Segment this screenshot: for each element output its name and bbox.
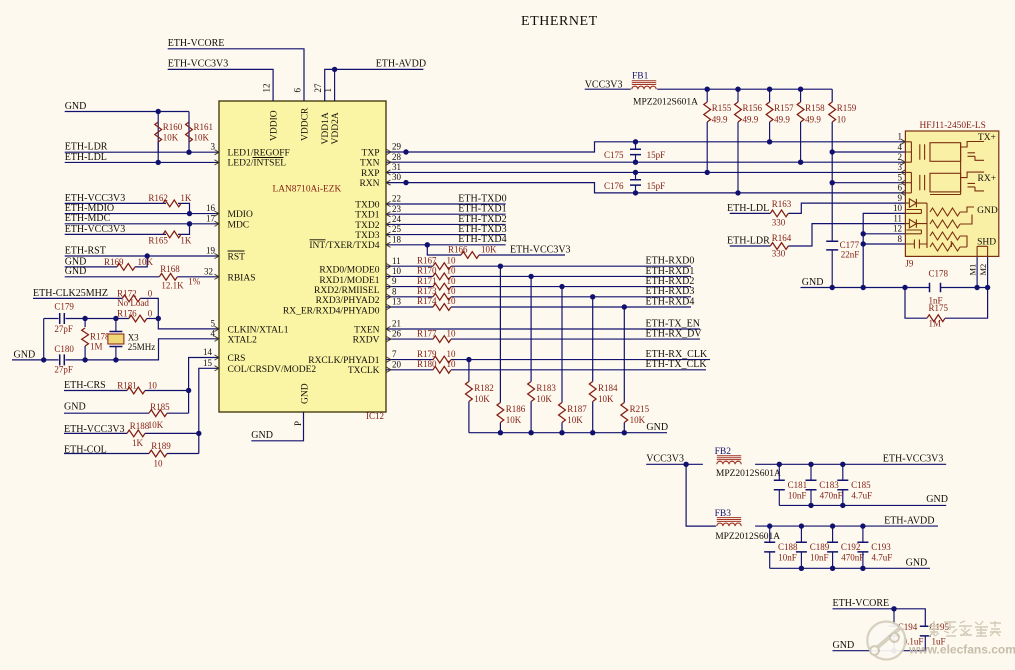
J9 LED1 diode	[905, 199, 927, 210]
svg-text:VDDIO: VDDIO	[270, 110, 280, 141]
svg-text:22nF: 22nF	[841, 250, 860, 260]
junction C175 bottom	[633, 160, 638, 165]
wire ETH-RXD0 from chip through R167	[386, 265, 433, 267]
wire chip GND pin to GND	[251, 412, 303, 441]
svg-text:1%: 1%	[188, 276, 201, 286]
svg-text:XTAL2: XTAL2	[228, 335, 258, 345]
svg-text:10K: 10K	[536, 394, 552, 404]
svg-text:No Load: No Load	[117, 298, 149, 308]
svg-text:RXD2/RMIISEL: RXD2/RMIISEL	[314, 286, 380, 296]
svg-text:ETH-VCC3V3: ETH-VCC3V3	[883, 454, 944, 465]
svg-text:MDC: MDC	[228, 220, 250, 230]
svg-text:ETH-RST: ETH-RST	[65, 245, 106, 256]
wire ETH-LDR to pin 3	[65, 151, 219, 153]
svg-text:1K: 1K	[132, 438, 144, 448]
junction C194 top	[891, 606, 896, 611]
svg-text:ETH-VCORE: ETH-VCORE	[168, 38, 225, 49]
wire ETH-RXD1 from chip through R170	[386, 275, 433, 277]
svg-text:C176: C176	[604, 181, 624, 191]
svg-text:12.1K: 12.1K	[161, 281, 184, 291]
resistor R186 10K	[497, 403, 504, 423]
junction ETH-RXD2 pulldown column	[559, 284, 564, 289]
wire R183 column	[530, 276, 532, 381]
junction C183 bottom	[808, 503, 813, 508]
svg-text:27pF: 27pF	[54, 364, 73, 374]
wire ETH-CRS through R181 to pin 14 CRS	[64, 390, 127, 392]
svg-text:12: 12	[893, 224, 902, 234]
resistor R215 10K	[621, 403, 628, 423]
svg-text:C175: C175	[604, 150, 624, 160]
J9 LED2 return pin 12	[905, 230, 921, 234]
wire RJ45 pin 10 to ground column	[863, 213, 905, 287]
svg-text:CLKIN/XTAL1: CLKIN/XTAL1	[228, 325, 289, 335]
svg-text:GND: GND	[646, 422, 668, 433]
J9 RX+ output steps	[961, 172, 985, 191]
svg-text:25: 25	[392, 224, 402, 234]
svg-text:R184: R184	[598, 383, 618, 393]
junction pin 12 ground	[861, 231, 866, 236]
svg-text:IC12: IC12	[366, 411, 384, 421]
wire M2 to shield rail	[987, 256, 989, 287]
wire ETH-COL through R189	[64, 453, 149, 455]
wire ETH-LDR through R164 to RJ45 pin 11	[730, 245, 771, 247]
svg-text:TXD1: TXD1	[355, 211, 380, 221]
junction GND/C179 branch	[41, 357, 46, 362]
svg-text:TXCLK: TXCLK	[348, 366, 380, 376]
junction C176 top	[633, 170, 638, 175]
ferrite bead FB2 MPZ2012S601A	[717, 461, 741, 464]
svg-text:R180: R180	[417, 359, 437, 369]
svg-text:GND: GND	[926, 494, 948, 505]
wire COL node to pin 15	[199, 368, 219, 453]
wire R182 column	[468, 360, 470, 382]
junction at pin 29	[403, 149, 408, 154]
svg-text:HFJ11-2450E-LS: HFJ11-2450E-LS	[920, 121, 986, 131]
junction R158 bottom	[798, 160, 803, 165]
svg-text:1M: 1M	[90, 342, 103, 352]
svg-text:14: 14	[203, 347, 213, 357]
svg-text:J9: J9	[905, 258, 914, 268]
resistor R183 10K	[528, 382, 535, 402]
wire GND through R168 to pin 32 RBIAS	[65, 276, 160, 278]
wire VCC3V3 through FB1 to termination rail	[585, 88, 631, 90]
svg-text:ETH-VCC3V3: ETH-VCC3V3	[168, 59, 229, 70]
svg-text:ETH-LDL: ETH-LDL	[727, 203, 769, 214]
svg-text:C188: C188	[778, 542, 798, 552]
ic U IC12 LAN8710Ai-EZK body	[219, 101, 386, 412]
svg-text:TX+: TX+	[978, 133, 996, 143]
junction C188 top	[767, 523, 772, 528]
svg-text:7: 7	[392, 349, 397, 359]
svg-text:R183: R183	[536, 383, 556, 393]
resistor R181 10	[127, 387, 145, 394]
svg-text:9: 9	[898, 193, 903, 203]
svg-text:27pF: 27pF	[54, 324, 73, 334]
svg-text:MPZ2012S601A: MPZ2012S601A	[715, 532, 780, 542]
resistor R184 10K	[589, 382, 596, 402]
svg-text:GND: GND	[251, 430, 273, 441]
svg-text:10K: 10K	[567, 415, 583, 425]
wire ETH-TXD0 from pin 22	[386, 203, 506, 205]
svg-text:R189: R189	[151, 441, 171, 451]
svg-text:10: 10	[447, 266, 457, 276]
svg-text:GND: GND	[65, 266, 87, 277]
svg-text:R155: R155	[712, 103, 732, 113]
capacitor C193 4.7uF	[862, 526, 864, 542]
wire ETH-RX_CLK from pin 7 through R179	[386, 359, 433, 361]
resistor R171 10	[433, 283, 451, 290]
wire ETH-VCC3V3 through R162 to MDIO	[65, 202, 166, 204]
J9 TX+ output steps	[961, 142, 985, 161]
junction R157 bottom	[767, 139, 772, 144]
junction R176 output on CLKIN branch	[156, 316, 161, 321]
wire ETH-VCC3V3 through R165 to MDC	[65, 233, 166, 235]
svg-text:R163: R163	[772, 199, 792, 209]
wire ETH-VCC3V3 rail	[755, 463, 946, 465]
junction C185 top	[840, 462, 845, 467]
junction C194 bottom	[891, 648, 896, 653]
svg-text:4.7uF: 4.7uF	[851, 490, 872, 500]
svg-text:23: 23	[392, 204, 402, 214]
resistor R187 10K	[559, 403, 566, 423]
svg-text:VCC3V3: VCC3V3	[585, 79, 623, 90]
resistor R160 10K vertical	[157, 112, 159, 153]
wire ETH-TXD2 from pin 24	[386, 223, 506, 225]
svg-text:26: 26	[392, 329, 402, 339]
junction X3 bottom	[113, 357, 118, 362]
svg-text:5: 5	[211, 319, 216, 329]
wire XTAL1 top rail with C179	[44, 318, 59, 320]
wire ETH-RXD2 from chip through R171	[386, 286, 433, 288]
svg-text:RX+: RX+	[978, 174, 997, 184]
resistor R157 49.9 vertical	[769, 89, 771, 102]
junction R156 bottom	[735, 190, 740, 195]
junction COL node	[196, 431, 201, 436]
svg-text:10nF: 10nF	[810, 552, 829, 562]
capacitor C175 15pF	[635, 142, 637, 149]
wire ETH-VCC3V3 to pin 12 VDDIO	[168, 69, 273, 101]
svg-text:R179: R179	[417, 349, 437, 359]
svg-text:TXP: TXP	[362, 148, 380, 158]
wire ETH-TX_CLK from pin 20 through R180	[386, 369, 433, 371]
J9 pin 8 coupling capacitor	[905, 240, 927, 249]
wire pin 1 VDD2A stub	[334, 69, 336, 101]
resistor R155 49.9 vertical	[706, 89, 708, 102]
svg-text:RBIAS: RBIAS	[228, 273, 256, 283]
svg-text:1K: 1K	[180, 235, 192, 245]
svg-text:VDD1A: VDD1A	[321, 112, 331, 144]
svg-text:RXD1/MODE1: RXD1/MODE1	[319, 276, 379, 286]
svg-text:1K: 1K	[180, 193, 192, 203]
watermark chinese characters	[928, 621, 1001, 636]
svg-text:GND: GND	[301, 383, 311, 404]
wire ETH-RXD4 from chip through R174	[386, 306, 433, 308]
junction C185 bottom	[840, 503, 845, 508]
junction at pin 30	[403, 180, 408, 185]
svg-text:R176: R176	[117, 309, 137, 319]
junction C189 top	[799, 523, 804, 528]
capacitor C183 470nF	[810, 464, 812, 480]
capacitor C179 27pF	[60, 313, 65, 324]
svg-text:ETH-RXD4: ETH-RXD4	[646, 296, 695, 307]
junction C193 bottom	[860, 566, 865, 571]
svg-text:R156: R156	[743, 103, 763, 113]
svg-text:5: 5	[898, 173, 903, 183]
svg-text:12: 12	[262, 84, 272, 93]
svg-text:13: 13	[392, 297, 402, 307]
svg-text:VDDCR: VDDCR	[301, 107, 311, 141]
svg-text:TXN: TXN	[360, 159, 380, 169]
svg-text:ETH-AVDD: ETH-AVDD	[376, 59, 426, 70]
svg-text:C181: C181	[788, 480, 808, 490]
svg-text:470nF: 470nF	[820, 490, 843, 500]
resistor R182 10K	[466, 382, 473, 402]
svg-text:ETH-VCORE: ETH-VCORE	[833, 598, 890, 609]
svg-text:FB1: FB1	[632, 71, 649, 81]
junction C175 top	[633, 139, 638, 144]
J9 RX transformer core	[920, 175, 925, 190]
svg-text:R215: R215	[630, 404, 650, 414]
resistor R162 1K	[163, 200, 181, 207]
svg-text:25MHz: 25MHz	[128, 342, 156, 352]
J9 RX transformer secondary	[930, 173, 961, 192]
resistor R165 1K	[163, 231, 181, 238]
svg-text:RXD0/MODE0: RXD0/MODE0	[319, 266, 379, 276]
svg-text:8: 8	[898, 234, 903, 244]
svg-text:R164: R164	[772, 233, 792, 243]
svg-text:TXEN: TXEN	[354, 325, 379, 335]
svg-text:RX_ER/RXD4/PHYAD0: RX_ER/RXD4/PHYAD0	[283, 306, 380, 316]
svg-text:10: 10	[148, 381, 158, 391]
svg-text:R187: R187	[567, 404, 587, 414]
wire ETH-MDC to pin 17	[65, 223, 219, 225]
junction R215 at GND rail	[622, 430, 627, 435]
wire ETH-RST to pin 19	[65, 255, 219, 257]
svg-text:4: 4	[211, 328, 216, 338]
junction GND/R160	[156, 109, 161, 114]
svg-text:R181: R181	[117, 381, 137, 391]
resistor R166 10K	[461, 252, 479, 259]
resistor R161 10K vertical	[188, 112, 190, 153]
resistor R189 10	[149, 450, 167, 457]
connector J9 HFJ11-2450E-LS body	[905, 131, 998, 256]
wire R184 column	[592, 297, 594, 382]
svg-text:10: 10	[447, 255, 457, 265]
junction R162/MDIO	[187, 211, 192, 216]
wire RXN pin 30 to RJ45 pin 6	[386, 183, 905, 193]
svg-text:ETH-LDL: ETH-LDL	[65, 152, 107, 163]
svg-text:ETH-CLK25MHZ: ETH-CLK25MHZ	[33, 288, 108, 299]
svg-text:C193: C193	[871, 542, 891, 552]
junction C193 top	[860, 523, 865, 528]
wire M1 to shield rail	[976, 256, 978, 287]
wire R166 pull to ETH-VCC3V3	[427, 245, 461, 255]
wire VCC3V3 branch to FB3	[686, 464, 716, 526]
junction R186 at GND rail	[498, 430, 503, 435]
svg-text:10: 10	[447, 286, 457, 296]
svg-text:10: 10	[392, 266, 402, 276]
svg-text:CRS: CRS	[228, 354, 246, 364]
svg-text:ETH-VCC3V3: ETH-VCC3V3	[64, 424, 125, 435]
wire FB3 GND rail	[770, 567, 930, 569]
wire ETH-TXD1 from pin 23	[386, 213, 506, 215]
svg-text:49.9: 49.9	[805, 114, 821, 124]
svg-text:330: 330	[772, 218, 786, 228]
resistor R172 0 ohm no-load	[122, 295, 140, 302]
capacitor C194 0.1uF	[893, 609, 895, 627]
junction C192 bottom	[830, 566, 835, 571]
svg-text:LAN8710Ai-EZK: LAN8710Ai-EZK	[273, 185, 342, 195]
svg-text:R170: R170	[417, 266, 437, 276]
svg-text:R158: R158	[805, 103, 825, 113]
junction TXD4/R166	[425, 242, 430, 247]
resistor R168 12.1K	[159, 273, 177, 280]
wire GND rail below RJ45	[801, 287, 930, 289]
svg-text:3: 3	[898, 162, 903, 172]
svg-text:R174: R174	[417, 296, 437, 306]
capacitor C181 10nF	[778, 464, 780, 480]
wire C179 left to GND rail	[43, 319, 45, 360]
svg-text:INT/TXER/TXD4: INT/TXER/TXD4	[309, 241, 379, 251]
wire center-tap to RJ45 pin 5	[832, 182, 905, 184]
svg-text:M2: M2	[978, 264, 988, 276]
junction R161/ETH-LDR	[186, 150, 191, 155]
wire ETH-VCORE rail	[833, 609, 926, 627]
J9 right vertical bus	[930, 143, 961, 195]
J9 LED1 return pin 10	[905, 209, 921, 213]
junction ETH-RXD1 pulldown column	[528, 274, 533, 279]
junction R183 at GND rail	[528, 430, 533, 435]
svg-text:R172: R172	[117, 288, 137, 298]
resistor R164 330	[770, 243, 788, 250]
junction C183 top	[808, 462, 813, 467]
junction M1 at shield rail	[974, 285, 979, 290]
svg-text:R160: R160	[163, 122, 183, 132]
svg-text:GND: GND	[65, 101, 87, 112]
svg-text:VDD2A: VDD2A	[331, 112, 341, 144]
wire ETH-AVDD to pins 27 and 1	[325, 69, 424, 101]
svg-text:11: 11	[392, 256, 401, 266]
junction ETH-RXD3 pulldown column	[590, 294, 595, 299]
svg-text:ETH-CRS: ETH-CRS	[64, 380, 106, 391]
svg-text:MPZ2012S601A: MPZ2012S601A	[716, 469, 781, 479]
svg-text:RXCLK/PHYAD1: RXCLK/PHYAD1	[308, 356, 380, 366]
wire R186 column	[499, 266, 501, 402]
svg-text:R173: R173	[417, 286, 437, 296]
svg-text:20: 20	[392, 359, 402, 369]
svg-text:49.9: 49.9	[712, 114, 728, 124]
svg-text:0: 0	[148, 288, 153, 298]
wire GND rail (VCORE)	[833, 650, 926, 652]
svg-text:9: 9	[392, 276, 397, 286]
svg-text:TXD2: TXD2	[355, 221, 380, 231]
junction C176 bottom	[633, 190, 638, 195]
svg-text:31: 31	[392, 162, 401, 172]
wire TXN pin 28 to RJ45 pin 2	[386, 161, 905, 163]
svg-text:GND: GND	[833, 640, 855, 651]
resistor R185 10K	[149, 410, 167, 417]
svg-text:10: 10	[154, 459, 164, 469]
capacitor C188 10nF	[769, 526, 771, 542]
svg-text:R182: R182	[474, 383, 494, 393]
svg-text:19: 19	[206, 246, 216, 256]
svg-text:4.7uF: 4.7uF	[872, 552, 893, 562]
ferrite bead FB1 MPZ2012S601A	[632, 86, 656, 89]
svg-text:ETHERNET: ETHERNET	[521, 14, 598, 29]
svg-text:18: 18	[392, 234, 402, 244]
wire ETH-AVDD rail	[755, 525, 938, 527]
svg-text:22: 22	[392, 194, 401, 204]
svg-text:C189: C189	[810, 542, 830, 552]
svg-text:ETH-MDC: ETH-MDC	[65, 213, 111, 224]
resistor R174 10	[433, 304, 451, 311]
svg-text:49.9: 49.9	[774, 114, 790, 124]
junction R187 at GND rail	[559, 430, 564, 435]
capacitor C177 22nF	[826, 241, 838, 250]
svg-text:R188: R188	[130, 421, 150, 431]
svg-text:P: P	[293, 421, 303, 426]
svg-text:470nF: 470nF	[841, 552, 864, 562]
svg-text:32: 32	[204, 266, 213, 276]
svg-text:0: 0	[148, 309, 153, 319]
svg-text:ETH-VCC3V3: ETH-VCC3V3	[65, 224, 126, 235]
svg-text:11: 11	[893, 213, 902, 223]
resistor R156 49.9 vertical	[737, 89, 739, 102]
capacitor C189 10nF	[800, 526, 802, 542]
junction FB1 rail R157	[767, 87, 772, 92]
wire R187 column	[561, 287, 563, 403]
junction M2 at shield rail	[985, 285, 990, 290]
J9 internal GND connection	[960, 207, 974, 224]
svg-text:C185: C185	[851, 480, 871, 490]
svg-text:RXN: RXN	[359, 179, 379, 189]
junction R178 bottom	[82, 357, 87, 362]
resistor R169 10K	[117, 264, 135, 271]
svg-text:10K: 10K	[506, 415, 522, 425]
svg-text:10K: 10K	[474, 394, 490, 404]
svg-text:15pF: 15pF	[647, 150, 666, 160]
resistor R167 10	[433, 263, 451, 270]
svg-text:GND: GND	[977, 206, 998, 216]
svg-text:R165: R165	[148, 235, 168, 245]
wire pulldown GND rail	[469, 432, 667, 434]
wire RJ45 pin 12 stub	[863, 233, 905, 235]
svg-text:R171: R171	[417, 276, 437, 286]
junction C189 bottom	[799, 566, 804, 571]
svg-text:MPZ2012S601A: MPZ2012S601A	[633, 98, 698, 108]
wire ETH-VCORE to pin 6 VDDCR	[168, 49, 304, 101]
svg-text:RST: RST	[228, 253, 246, 263]
svg-text:RXP: RXP	[361, 169, 379, 179]
junction VCC3V3 branch	[683, 462, 688, 467]
svg-text:17: 17	[206, 213, 216, 223]
wire ETH-RXD3 from chip through R173	[386, 296, 433, 298]
svg-text:30: 30	[392, 172, 402, 182]
svg-text:R185: R185	[150, 402, 170, 412]
svg-text:ETH-LDR: ETH-LDR	[727, 235, 770, 246]
capacitor C176 15pF	[635, 172, 637, 179]
svg-text:10K: 10K	[194, 133, 210, 143]
resistor R178 1M vertical	[84, 319, 86, 328]
junction ETH-RXD4 pulldown column	[622, 304, 627, 309]
svg-text:15: 15	[203, 358, 213, 368]
svg-text:10nF: 10nF	[788, 490, 807, 500]
capacitor C180 27pF	[60, 354, 65, 365]
svg-text:10K: 10K	[630, 415, 646, 425]
svg-text:1M: 1M	[929, 318, 942, 328]
wire center-tap to RJ45 pin 4	[832, 151, 905, 153]
svg-text:49.9: 49.9	[743, 114, 759, 124]
